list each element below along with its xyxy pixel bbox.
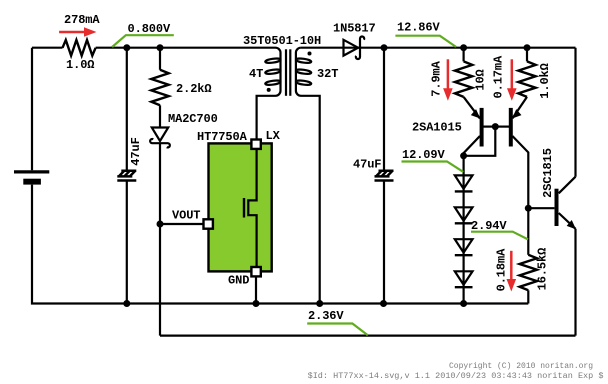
node dot 0.800V left bbox=[123, 44, 130, 51]
svg-text:$Id: HT77xx-14.svg,v 1.1 2010/: $Id: HT77xx-14.svg,v 1.1 2010/09/23 03:4… bbox=[308, 371, 604, 381]
wire 1.0k branch lead bbox=[526, 48, 528, 62]
wire VOUT pin to node bbox=[160, 223, 204, 225]
svg-text:47uF: 47uF bbox=[129, 137, 143, 165]
node dot rail GND pin bbox=[253, 300, 260, 307]
wire 10 ohm branch lead bbox=[463, 48, 465, 62]
node dot 12.09V bbox=[460, 152, 467, 159]
transformer T1 primary loop 2 bbox=[265, 69, 281, 75]
pin VOUT square bbox=[204, 219, 213, 228]
node dot 12.86V r4 branch bbox=[524, 44, 531, 51]
diode D2 triangle bbox=[455, 207, 473, 220]
svg-text:10Ω: 10Ω bbox=[474, 69, 488, 90]
wire left battery branch down bbox=[31, 48, 33, 171]
svg-text:32T: 32T bbox=[317, 67, 338, 81]
transistor Q2 base wire bbox=[495, 125, 509, 127]
wire 2.2k to MA2C700 anode bbox=[159, 105, 161, 127]
transformer T1 secondary outline and ground drop bbox=[296, 48, 320, 304]
diode D1 triangle bbox=[455, 175, 473, 188]
svg-text:1.0Ω: 1.0Ω bbox=[66, 58, 94, 72]
current arrow 278mA head bbox=[84, 27, 97, 37]
transformer T1 primary loop 3 bbox=[265, 80, 281, 86]
resistor R5 16.5k zigzag bbox=[520, 255, 537, 291]
wire C2 upper lead bbox=[383, 48, 385, 171]
svg-text:2SA1015: 2SA1015 bbox=[412, 121, 462, 135]
transistor Q3 2SC1815 base wire bbox=[528, 207, 554, 209]
diode D4 cathode bar bbox=[455, 286, 473, 288]
diode D5 1N5817 schottky bar bbox=[356, 36, 364, 59]
pointer line 2.36V bbox=[307, 324, 368, 336]
diode D1 cathode bar bbox=[455, 190, 473, 192]
pin LX square bbox=[251, 140, 260, 149]
wire diode string vertical bbox=[463, 156, 465, 304]
transistor Q1 base wire bbox=[483, 125, 495, 127]
diode D6 MA2C700 schottky bar bbox=[150, 139, 170, 147]
transistor Q3 2SC1815 bar bbox=[555, 189, 559, 226]
node dot 0.800V right bbox=[157, 44, 164, 51]
wire battery bottom to ground rail bbox=[32, 185, 528, 304]
wire MA2C700 cathode down through VOUT node to feedback bbox=[159, 143, 161, 336]
svg-text:2.2kΩ: 2.2kΩ bbox=[176, 82, 212, 96]
svg-text:LX: LX bbox=[266, 129, 281, 143]
wire R3 to Q1 emitter diagonal bbox=[464, 97, 480, 119]
diode D3 triangle bbox=[455, 239, 473, 252]
resistor R4 1.0k zigzag bbox=[518, 61, 535, 96]
wire base tie-down between Q1 Q2 bbox=[464, 127, 496, 156]
pointer line 12.86V bbox=[395, 36, 456, 47]
node dot rail diode string bbox=[460, 300, 467, 307]
svg-text:0.18mA: 0.18mA bbox=[495, 248, 509, 292]
wire feedback bottom 2.36V bbox=[160, 335, 576, 337]
svg-text:1N5817: 1N5817 bbox=[333, 22, 376, 36]
node dot rail secondary bbox=[316, 300, 323, 307]
transformer phase dot secondary bbox=[308, 52, 312, 56]
diode D5 1N5817 triangle bbox=[344, 40, 359, 56]
svg-text:278mA: 278mA bbox=[64, 13, 100, 27]
wire node 0.800V branch down to 2.2k bbox=[159, 48, 161, 70]
wire top rail left segment bbox=[32, 47, 63, 49]
wire secondary to 1N5817 and top right rail bbox=[301, 47, 576, 49]
pin GND square bbox=[251, 267, 260, 276]
wire 16.5k branch top bbox=[527, 208, 529, 255]
svg-text:47uF: 47uF bbox=[353, 158, 381, 172]
wire 16.5k bottom to rail bbox=[527, 290, 529, 303]
transformer T1 secondary loop 2 bbox=[296, 69, 312, 75]
transformer T1 primary loop 1 bbox=[265, 58, 281, 64]
transformer T1 secondary loop 1 bbox=[296, 58, 312, 64]
svg-text:2.94V: 2.94V bbox=[471, 219, 507, 233]
current arrow 0.17mA head bbox=[507, 88, 517, 101]
node dot VOUT bbox=[157, 221, 164, 228]
transistor Q2 emitter arrow bbox=[513, 110, 521, 118]
svg-text:0.17mA: 0.17mA bbox=[492, 55, 506, 99]
transistor Q2 collector diagonal bbox=[512, 136, 528, 208]
pointer line 0.800V bbox=[112, 35, 174, 47]
wire 47uF left branch lower bbox=[126, 182, 128, 304]
wire Q3 emitter down right edge bbox=[574, 229, 576, 336]
transistor Q1 collector diagonal to node bbox=[464, 136, 480, 156]
resistor R3 10 ohm zigzag bbox=[455, 61, 472, 96]
transformer T1 primary outline and LX drop bbox=[257, 48, 281, 140]
current arrow 0.18mA shaft bbox=[510, 251, 513, 284]
battery B1 top plate bbox=[14, 170, 49, 173]
resistor R1 1.0 ohm zigzag bbox=[63, 40, 96, 56]
svg-text:12.09V: 12.09V bbox=[402, 148, 446, 162]
current arrow 278mA shaft bbox=[59, 31, 88, 34]
diode D6 MA2C700 triangle bbox=[152, 128, 168, 142]
wire R4 to Q2 emitter diagonal bbox=[512, 97, 527, 119]
capacitor C1 flat plate bbox=[117, 179, 136, 182]
transformer T1 core line left bbox=[285, 49, 287, 96]
op-amp U1 HT7750A body bbox=[209, 143, 272, 271]
transistor M1 internal mosfet gate bar bbox=[243, 198, 245, 218]
transistor M1 internal mosfet drain path bbox=[248, 143, 256, 267]
transistor Q3 collector diagonal bbox=[559, 177, 576, 194]
svg-text:4T: 4T bbox=[249, 67, 263, 81]
pointer line 2.94V bbox=[471, 232, 528, 240]
node dot 12.86V r3 branch bbox=[460, 44, 467, 51]
current arrow 0.18mA head bbox=[507, 279, 517, 292]
svg-text:16.5kΩ: 16.5kΩ bbox=[535, 248, 549, 291]
battery B1 bottom plate bbox=[23, 179, 41, 185]
svg-text:1.0kΩ: 1.0kΩ bbox=[538, 63, 552, 99]
svg-text:2SC1815: 2SC1815 bbox=[541, 148, 555, 198]
wire GND pin down to rail bbox=[255, 275, 257, 303]
capacitor C2 47uF hatched plate bbox=[375, 171, 394, 177]
wire C2 lower lead bbox=[383, 182, 385, 304]
svg-text:2.36V: 2.36V bbox=[308, 309, 344, 323]
svg-text:35T0501-10H: 35T0501-10H bbox=[243, 34, 321, 48]
transistor Q1 emitter arrow bbox=[472, 110, 480, 118]
node dot rail C1 bbox=[123, 300, 130, 307]
capacitor C2 flat plate bbox=[375, 179, 394, 182]
wire right rail corner down to Q3 collector bbox=[574, 48, 576, 177]
svg-text:12.86V: 12.86V bbox=[397, 21, 441, 35]
wire 47uF left branch upper bbox=[126, 48, 128, 171]
transistor Q1 2SA1015 bar bbox=[480, 108, 484, 147]
resistor R2 2.2k zigzag bbox=[151, 70, 168, 105]
svg-text:7.9mA: 7.9mA bbox=[429, 60, 443, 96]
svg-text:HT7750A: HT7750A bbox=[197, 130, 248, 144]
diode D4 triangle bbox=[455, 271, 473, 284]
transformer T1 secondary loop 3 bbox=[296, 80, 312, 86]
node dot Q3 base bbox=[525, 205, 532, 212]
current arrow 0.17mA shaft bbox=[511, 59, 514, 93]
transistor Q3 emitter arrow bbox=[568, 221, 576, 229]
svg-text:MA2C700: MA2C700 bbox=[168, 112, 218, 126]
transistor Q3 emitter diagonal bbox=[559, 213, 576, 229]
transformer T1 core line right bbox=[289, 49, 291, 96]
wire top rail to transformer bbox=[96, 47, 276, 49]
node dot Q1 Q2 bases bbox=[492, 123, 499, 130]
pointer line 12.09V bbox=[402, 162, 464, 172]
transistor Q2 2SA1015 bar bbox=[509, 108, 513, 147]
node dot 12.86V cap branch bbox=[381, 44, 388, 51]
capacitor C1 47uF hatched plate bbox=[117, 171, 136, 177]
svg-text:GND: GND bbox=[228, 274, 249, 288]
svg-text:0.800V: 0.800V bbox=[128, 22, 172, 36]
diode D3 cathode bar bbox=[455, 254, 473, 256]
svg-text:VOUT: VOUT bbox=[172, 209, 200, 223]
diode D2 cathode bar bbox=[455, 222, 473, 224]
current arrow 7.9mA head bbox=[443, 88, 453, 101]
current arrow 7.9mA shaft bbox=[447, 59, 450, 93]
node dot rail C2 bbox=[380, 300, 387, 307]
svg-text:Copyright (C) 2010 noritan.org: Copyright (C) 2010 noritan.org bbox=[449, 362, 593, 371]
transformer phase dot primary bbox=[267, 88, 271, 92]
